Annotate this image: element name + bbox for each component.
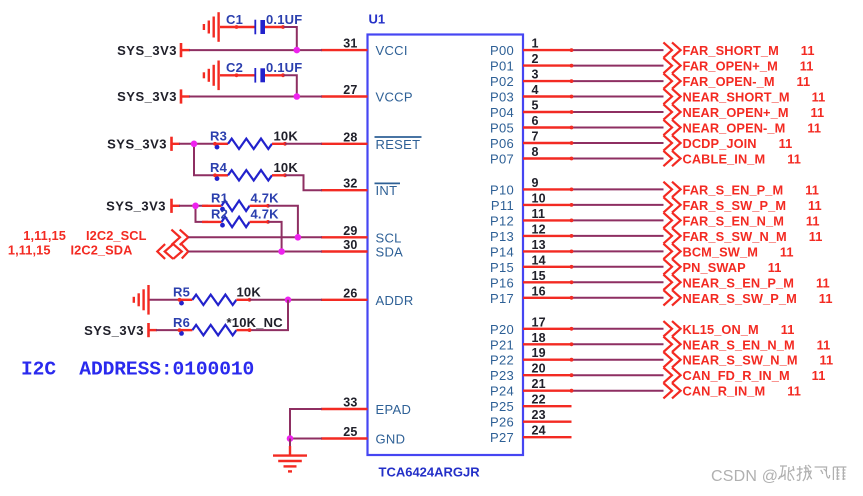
pin 5 P04	[490, 99, 572, 121]
svg-text:R3: R3	[210, 129, 227, 144]
svg-text:32: 32	[343, 177, 357, 191]
svg-text:P00: P00	[490, 43, 514, 58]
svg-text:NEAR_S_SW_P_M 11: NEAR_S_SW_P_M 11	[683, 291, 833, 306]
wire net FAR_OPEN+_M	[570, 64, 664, 68]
junction R1/SCL	[295, 234, 302, 241]
svg-text:C2: C2	[226, 60, 243, 75]
pin 24 P27	[490, 424, 572, 446]
pin 28 RESET	[321, 130, 422, 152]
wire net NEAR_OPEN+_M	[570, 110, 664, 114]
svg-text:FAR_OPEN-_M 11: FAR_OPEN-_M 11	[683, 74, 811, 89]
svg-text:P17: P17	[490, 291, 514, 306]
svg-text:EPAD: EPAD	[376, 402, 412, 417]
off-page connector CABLE_IN_M	[663, 151, 680, 166]
svg-text:8: 8	[532, 145, 539, 159]
off-page connector CAN_R_IN_M	[663, 383, 680, 398]
pin 23 P26	[490, 408, 572, 430]
svg-text:P25: P25	[490, 399, 514, 414]
svg-text:NEAR_OPEN+_M 11: NEAR_OPEN+_M 11	[683, 105, 825, 120]
pin 19 P22	[490, 346, 572, 368]
svg-text:5: 5	[532, 99, 539, 113]
junction R3/R4	[191, 141, 198, 148]
svg-text:P12: P12	[490, 213, 514, 228]
pin 14 P15	[490, 253, 572, 275]
pin 8 P07	[490, 145, 572, 167]
svg-text:SYS_3V3: SYS_3V3	[117, 43, 177, 58]
svg-text:P14: P14	[490, 244, 514, 259]
svg-text:FAR_SHORT_M 11: FAR_SHORT_M 11	[683, 43, 815, 58]
off-page connector DCDP_JOIN	[663, 135, 680, 150]
svg-text:23: 23	[532, 408, 546, 422]
pin 30 SDA	[321, 238, 403, 260]
pin 26 ADDR	[321, 286, 414, 308]
wire net CABLE_IN_M	[570, 157, 664, 161]
off-page connector I2C2_SDA	[157, 244, 188, 259]
pin 33 EPAD	[321, 396, 411, 418]
svg-text:PN_SWAP 11: PN_SWAP 11	[683, 260, 782, 275]
svg-text:0.1UF: 0.1UF	[266, 60, 302, 75]
resistor R6	[178, 325, 252, 336]
svg-text:SDA: SDA	[376, 245, 404, 260]
svg-text:1,11,15: 1,11,15	[23, 228, 66, 243]
wire net FAR_S_EN_P_M	[570, 188, 664, 192]
svg-text:P05: P05	[490, 121, 514, 136]
pin 16 P17	[490, 284, 572, 306]
pin 7 P06	[490, 130, 572, 152]
svg-text:R5: R5	[173, 285, 190, 300]
svg-text:NEAR_S_EN_N_M 11: NEAR_S_EN_N_M 11	[683, 337, 831, 352]
junction R5/R6	[285, 297, 292, 304]
svg-text:1: 1	[532, 37, 539, 51]
svg-text:27: 27	[343, 83, 357, 97]
wire branch down to R2	[196, 206, 209, 222]
svg-text:P23: P23	[490, 368, 514, 383]
wire branch down to R6	[250, 300, 289, 330]
wire R3 to RESET	[285, 143, 322, 145]
junction R1/R2	[192, 203, 199, 210]
svg-text:17: 17	[532, 315, 546, 329]
junction C2/VCCP	[294, 93, 301, 100]
svg-text:SCL: SCL	[376, 230, 402, 245]
svg-text:CAN_FD_R_IN_M 11: CAN_FD_R_IN_M 11	[683, 368, 826, 383]
svg-text:I2C2_SDA: I2C2_SDA	[71, 243, 133, 258]
svg-text:TCA6424ARGJR: TCA6424ARGJR	[379, 465, 481, 480]
svg-text:4.7K: 4.7K	[251, 191, 280, 206]
off-page connector KL15_ON_M	[663, 321, 680, 336]
svg-text:CABLE_IN_M 11: CABLE_IN_M 11	[683, 152, 801, 167]
junction R2/SDA	[278, 248, 285, 255]
ground (C1)	[204, 12, 219, 42]
svg-text:P27: P27	[490, 430, 514, 445]
wire branch down to R4	[194, 144, 216, 176]
svg-text:P02: P02	[490, 74, 514, 89]
svg-text:1,11,15: 1,11,15	[8, 243, 51, 258]
off-page connector FAR_SHORT_M	[663, 42, 680, 57]
wire net NEAR_S_EN_N_M	[570, 342, 664, 346]
wire net NEAR_S_SW_P_M	[570, 296, 664, 300]
svg-text:25: 25	[343, 425, 357, 439]
pin 32 INT	[321, 177, 400, 199]
svg-text:2: 2	[532, 52, 539, 66]
pin 15 P16	[490, 269, 572, 291]
resistor R2	[202, 217, 270, 228]
svg-text:KL15_ON_M 11: KL15_ON_M 11	[683, 322, 795, 337]
svg-text:P22: P22	[490, 353, 514, 368]
svg-text:VCCI: VCCI	[376, 43, 408, 58]
wire EPAD to ground	[290, 409, 322, 439]
wire net NEAR_OPEN-_M	[570, 126, 664, 130]
junction C1/VCCI	[294, 47, 301, 54]
wire junction to ground symbol	[289, 439, 291, 448]
svg-text:26: 26	[343, 286, 357, 300]
wire C2 to VCCP net	[284, 75, 297, 96]
svg-text:P03: P03	[490, 90, 514, 105]
off-page connector FAR_S_SW_P_M	[663, 197, 680, 212]
wire C1 to VCCI net	[284, 27, 297, 50]
pin 2 P01	[490, 52, 572, 74]
svg-text:P01: P01	[490, 59, 514, 74]
svg-text:SYS_3V3: SYS_3V3	[106, 199, 166, 214]
power symbol SYS_3V3 (RESET)	[172, 137, 181, 151]
svg-text:GND: GND	[376, 432, 406, 447]
svg-text:I2C ADDRESS:0100010: I2C ADDRESS:0100010	[21, 359, 254, 381]
pin 29 SCL	[321, 224, 402, 246]
pin 25 GND	[321, 425, 405, 447]
wire net BCM_SW_M	[570, 250, 664, 254]
wire net FAR_S_EN_N_M	[570, 219, 664, 223]
resistor R4	[213, 170, 287, 181]
wire I2C2_SCL to pin 29	[188, 236, 322, 238]
resistor R1	[202, 201, 270, 212]
pin 1 P00	[490, 37, 572, 59]
off-page connector FAR_OPEN-_M	[663, 73, 680, 88]
pin 18 P21	[490, 331, 572, 353]
off-page connector FAR_OPEN+_M	[663, 58, 680, 73]
wire net NEAR_SHORT_M	[570, 95, 664, 99]
off-page connector CAN_FD_R_IN_M	[663, 368, 680, 383]
off-page connector FAR_S_EN_P_M	[663, 182, 680, 197]
wire ground to R5	[150, 299, 181, 301]
wire R2 to SDA	[268, 222, 282, 252]
svg-text:P20: P20	[490, 322, 514, 337]
svg-text:FAR_S_SW_P_M 11: FAR_S_SW_P_M 11	[683, 198, 822, 213]
wire SYS_3V3 to R3	[179, 143, 216, 145]
wire net CAN_R_IN_M	[570, 389, 664, 393]
off-page connector NEAR_S_EN_N_M	[663, 337, 680, 352]
wire net FAR_OPEN-_M	[570, 79, 664, 83]
wire R1 to SCL	[268, 206, 298, 238]
svg-text:28: 28	[343, 130, 357, 144]
svg-text:R6: R6	[173, 315, 190, 330]
wire net DCDP_JOIN	[570, 141, 664, 145]
off-page connector NEAR_SHORT_M	[663, 89, 680, 104]
capacitor C2	[220, 68, 285, 83]
ground (C2)	[204, 61, 219, 91]
svg-text:P04: P04	[490, 105, 514, 120]
pin 9 P10	[490, 176, 572, 198]
pin 13 P14	[490, 238, 572, 260]
svg-text:7: 7	[532, 130, 539, 144]
pin 17 P20	[490, 315, 572, 337]
junction GND	[287, 435, 294, 442]
svg-text:16: 16	[532, 284, 546, 298]
svg-text:12: 12	[532, 222, 546, 236]
svg-text:31: 31	[343, 37, 357, 51]
svg-text:FAR_OPEN+_M 11: FAR_OPEN+_M 11	[683, 59, 814, 74]
pin 27 VCCP	[321, 83, 413, 105]
svg-text:14: 14	[532, 253, 546, 267]
svg-text:P24: P24	[490, 384, 514, 399]
svg-text:6: 6	[532, 114, 539, 128]
off-page connector PN_SWAP	[663, 259, 680, 274]
svg-text:CSDN @: CSDN @	[711, 468, 778, 485]
svg-text:4: 4	[532, 83, 539, 97]
svg-text:CAN_R_IN_M 11: CAN_R_IN_M 11	[683, 384, 801, 399]
power symbol SYS_3V3 (R1/R2)	[172, 199, 181, 213]
svg-text:10: 10	[532, 191, 546, 205]
pin 22 P25	[490, 393, 572, 415]
svg-text:P16: P16	[490, 275, 514, 290]
off-page connector FAR_S_SW_N_M	[663, 228, 680, 243]
svg-text:9: 9	[532, 176, 539, 190]
resistor R5	[178, 295, 252, 306]
off-page connector NEAR_S_EN_P_M	[663, 275, 680, 290]
wire net NEAR_S_SW_N_M	[570, 358, 664, 362]
svg-text:BCM_SW_M 11: BCM_SW_M 11	[683, 244, 794, 259]
pin 10 P11	[491, 191, 572, 213]
wire net KL15_ON_M	[570, 327, 664, 331]
off-page connector BCM_SW_M	[663, 244, 680, 259]
wire net CAN_FD_R_IN_M	[570, 373, 664, 377]
wire SYS_3V3 to VCCP	[189, 96, 322, 98]
svg-text:*10K_NC: *10K_NC	[227, 315, 284, 330]
off-page connector FAR_S_EN_N_M	[663, 213, 680, 228]
wire net FAR_S_SW_N_M	[570, 234, 664, 238]
svg-text:15: 15	[532, 269, 546, 283]
wire net FAR_S_SW_P_M	[570, 203, 664, 207]
svg-text:21: 21	[532, 377, 546, 391]
pin 6 P05	[490, 114, 572, 136]
svg-text:19: 19	[532, 346, 546, 360]
svg-text:NEAR_SHORT_M 11: NEAR_SHORT_M 11	[683, 90, 826, 105]
svg-text:I2C2_SCL: I2C2_SCL	[86, 228, 147, 243]
svg-text:RESET: RESET	[376, 137, 421, 152]
svg-text:20: 20	[532, 362, 546, 376]
pin 31 VCCI	[321, 37, 408, 59]
power symbol SYS_3V3 (VCCI)	[181, 43, 190, 57]
wire GND pin	[290, 438, 322, 440]
pin 20 P23	[490, 362, 572, 384]
svg-text:P26: P26	[490, 415, 514, 430]
svg-text:P13: P13	[490, 229, 514, 244]
wire SYS_3V3 to VCCI	[189, 49, 322, 51]
wire SYS_3V3 to R6	[156, 329, 180, 331]
svg-text:FAR_S_EN_P_M 11: FAR_S_EN_P_M 11	[683, 182, 819, 197]
svg-text:33: 33	[343, 396, 357, 410]
svg-text:22: 22	[532, 393, 546, 407]
pin 4 P03	[490, 83, 572, 105]
wire R5 to ADDR	[250, 299, 323, 301]
svg-text:0.1UF: 0.1UF	[266, 12, 302, 27]
off-page connector NEAR_OPEN+_M	[663, 104, 680, 119]
ground (GND/EPAD)	[273, 456, 307, 472]
capacitor C1	[220, 20, 285, 35]
svg-text:11: 11	[532, 207, 546, 221]
svg-text:30: 30	[343, 238, 357, 252]
svg-text:SYS_3V3: SYS_3V3	[107, 137, 167, 152]
watermark glyphs	[778, 465, 846, 481]
svg-text:ADDR: ADDR	[376, 293, 414, 308]
pin 12 P13	[490, 222, 572, 244]
ground (R5)	[134, 285, 149, 315]
svg-text:10K: 10K	[274, 160, 299, 175]
svg-text:4.7K: 4.7K	[251, 207, 280, 222]
svg-text:24: 24	[532, 424, 546, 438]
svg-text:P15: P15	[490, 260, 514, 275]
svg-text:R2: R2	[211, 207, 228, 222]
svg-text:P21: P21	[490, 337, 514, 352]
svg-text:U1: U1	[369, 12, 386, 27]
svg-text:SYS_3V3: SYS_3V3	[84, 323, 144, 338]
svg-text:10K: 10K	[237, 285, 262, 300]
off-page connector I2C2_SCL	[171, 230, 188, 245]
svg-text:VCCP: VCCP	[376, 90, 413, 105]
op-amp U1 body: TCA6424ARGJR I/O expander outline	[368, 35, 524, 456]
wire net FAR_SHORT_M	[570, 48, 664, 52]
svg-text:NEAR_S_EN_P_M 11: NEAR_S_EN_P_M 11	[683, 275, 830, 290]
svg-text:P10: P10	[490, 182, 514, 197]
svg-text:P07: P07	[490, 152, 514, 167]
off-page connector NEAR_S_SW_P_M	[663, 290, 680, 305]
pin 3 P02	[490, 68, 572, 90]
power symbol SYS_3V3 (VCCP)	[181, 89, 190, 103]
svg-text:R4: R4	[210, 160, 228, 175]
svg-text:29: 29	[343, 224, 357, 238]
off-page connector NEAR_S_SW_N_M	[663, 352, 680, 367]
svg-text:R1: R1	[211, 191, 228, 206]
svg-text:NEAR_S_SW_N_M 11: NEAR_S_SW_N_M 11	[683, 353, 834, 368]
power symbol SYS_3V3 (R6)	[149, 323, 158, 337]
svg-text:DCDP_JOIN 11: DCDP_JOIN 11	[683, 136, 793, 151]
svg-text:P06: P06	[490, 136, 514, 151]
resistor R3	[213, 139, 287, 150]
svg-text:18: 18	[532, 331, 546, 345]
wire net NEAR_S_EN_P_M	[570, 280, 664, 284]
svg-text:FAR_S_EN_N_M 11: FAR_S_EN_N_M 11	[683, 213, 820, 228]
wire SYS_3V3 to R1	[179, 205, 208, 207]
svg-text:10K: 10K	[274, 129, 299, 144]
wire R4 to INT	[285, 175, 322, 190]
svg-text:SYS_3V3: SYS_3V3	[117, 89, 177, 104]
wire net PN_SWAP	[570, 265, 664, 269]
off-page connector NEAR_OPEN-_M	[663, 120, 680, 135]
svg-text:FAR_S_SW_N_M 11: FAR_S_SW_N_M 11	[683, 229, 823, 244]
svg-text:C1: C1	[226, 12, 243, 27]
svg-text:3: 3	[532, 68, 539, 82]
svg-text:P11: P11	[491, 198, 514, 213]
svg-text:INT: INT	[376, 183, 398, 198]
wire I2C2_SDA to pin 30	[188, 251, 322, 253]
pin 11 P12	[490, 207, 572, 229]
svg-text:13: 13	[532, 238, 546, 252]
pin 21 P24	[490, 377, 572, 399]
svg-text:NEAR_OPEN-_M 11: NEAR_OPEN-_M 11	[683, 121, 822, 136]
